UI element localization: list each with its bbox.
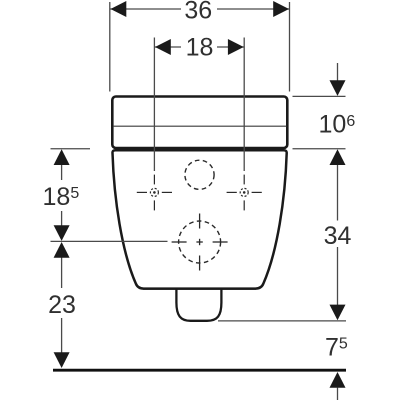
bowl bottom edge through spigot — [143, 288, 256, 290]
arrow 34 down — [330, 305, 346, 321]
svg-text:36: 36 — [184, 0, 212, 25]
leader line to outlet — [51, 240, 168, 242]
outlet spigot — [176, 290, 221, 321]
arrow 18 right — [228, 39, 244, 55]
right dimension 10^6 — [293, 63, 346, 149]
cistern lid box — [112, 97, 287, 149]
arrow 34 up — [330, 149, 346, 165]
outlet center cross — [196, 239, 202, 245]
right dimension 34 — [218, 165, 346, 321]
arrow 10^6 down — [330, 80, 346, 96]
bowl outline — [112, 150, 286, 288]
arrow 36 left — [111, 1, 127, 17]
arrow 18^5 down — [54, 225, 70, 241]
arrow 23 up — [54, 242, 70, 258]
floor line — [53, 369, 346, 372]
water supply dashed circle — [185, 160, 214, 189]
svg-text:18: 18 — [186, 34, 214, 62]
fixing point left — [137, 175, 172, 211]
arrow 7^5 up below floor — [330, 372, 346, 388]
left dimension 23 — [61, 258, 63, 354]
dimension 36 top — [110, 2, 290, 92]
outlet dashed circle — [179, 221, 221, 263]
arrow 36 right — [273, 1, 289, 17]
svg-text:34: 34 — [324, 222, 352, 250]
fixing point right — [227, 175, 262, 211]
lid seam line — [113, 125, 287, 127]
line below floor arrow — [337, 388, 339, 400]
arrow 23 down — [54, 352, 70, 368]
outlet rim ticks — [172, 214, 228, 271]
arrow 18 left — [155, 39, 171, 55]
left dimension 18^5 — [51, 149, 91, 226]
dimension 18 top — [154, 38, 244, 172]
svg-text:23: 23 — [48, 291, 76, 319]
arrow 18^5 up — [54, 149, 70, 165]
